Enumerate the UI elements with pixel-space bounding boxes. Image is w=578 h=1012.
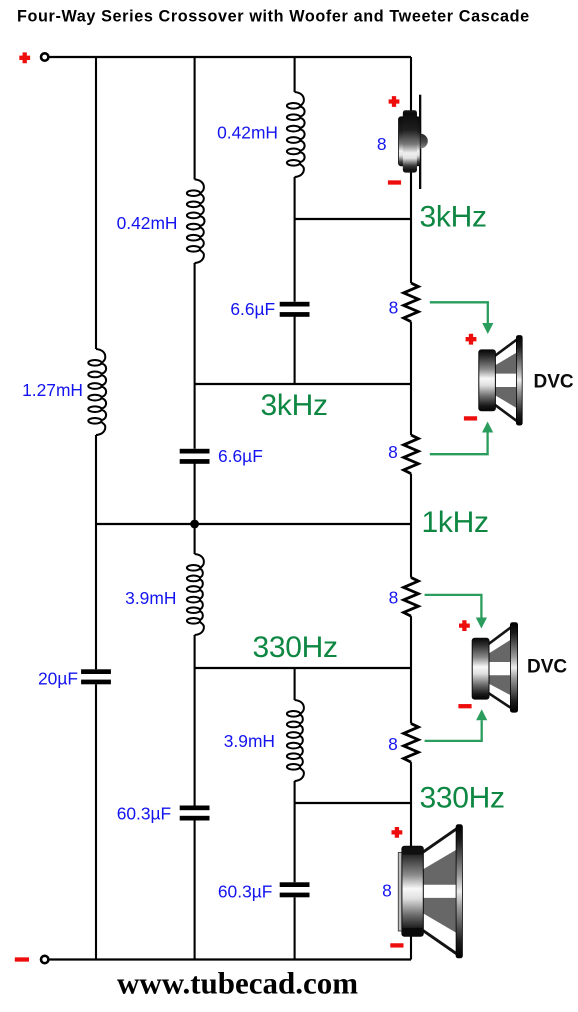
svg-text:6.6µF: 6.6µF xyxy=(230,299,275,319)
capacitor C4 60.3uF xyxy=(180,806,210,811)
wire x2 upper xyxy=(194,57,196,179)
wire bottom rail xyxy=(49,958,411,960)
label - (DVC2) xyxy=(458,704,471,708)
label + (tweeter) xyxy=(389,96,400,107)
wire node line E (330Hz lower) xyxy=(295,802,411,804)
svg-text:60.3µF: 60.3µF xyxy=(218,881,273,901)
resistor R3 8ohm xyxy=(404,578,419,617)
wire x3 upper xyxy=(294,177,296,302)
svg-text:3kHz: 3kHz xyxy=(420,200,487,233)
svg-text:6.6µF: 6.6µF xyxy=(218,446,263,466)
node junction dot (1kHz bus) xyxy=(190,520,199,529)
svg-text:3kHz: 3kHz xyxy=(261,389,328,422)
capacitor C6 60.3uF xyxy=(280,882,310,887)
green arrow R2 to DVC1 - xyxy=(430,433,488,455)
tweeter speaker (8 ohm) xyxy=(419,95,421,189)
input terminal circle (bottom) xyxy=(41,956,48,963)
capacitor C5 20uF xyxy=(81,669,111,674)
svg-text:8: 8 xyxy=(377,134,387,154)
svg-text:1kHz: 1kHz xyxy=(422,506,489,539)
wire left rail upper xyxy=(95,57,97,349)
wire node line C (1kHz) xyxy=(96,523,411,525)
svg-text:DVC: DVC xyxy=(527,657,567,678)
inductor L4 1.27mH xyxy=(96,349,106,435)
svg-text:Four-Way Series Crossover with: Four-Way Series Crossover with Woofer an… xyxy=(17,8,530,26)
wire x3 bottom xyxy=(294,897,296,959)
wire x2 bottom xyxy=(194,821,196,960)
label - (woofer) xyxy=(390,943,403,947)
label + (DVC1) xyxy=(466,334,477,345)
input terminal circle (top) xyxy=(41,53,48,60)
inductor L3 3.9mH xyxy=(195,554,204,635)
resistor R1 8ohm xyxy=(404,283,419,322)
wire right rail xyxy=(410,57,412,112)
wire x3 top xyxy=(294,57,296,92)
green arrow R3 to DVC2 + xyxy=(425,595,482,618)
inductor L5 3.9mH xyxy=(295,700,304,781)
green arrow R4 to DVC2 - xyxy=(425,720,482,741)
label - (DVC1) xyxy=(464,416,477,420)
wire x3 lower1 xyxy=(294,668,296,700)
negative input terminal - xyxy=(15,957,29,961)
svg-text:330Hz: 330Hz xyxy=(253,631,338,664)
green arrow R1 to DVC1 + xyxy=(430,302,488,323)
svg-text:330Hz: 330Hz xyxy=(420,782,505,815)
svg-text:8: 8 xyxy=(388,442,398,462)
wire node line B (3kHz) xyxy=(195,383,411,385)
svg-text:3.9mH: 3.9mH xyxy=(125,588,176,608)
wire x3 lower2 xyxy=(294,781,296,882)
svg-text:60.3µF: 60.3µF xyxy=(117,804,172,824)
svg-text:0.42mH: 0.42mH xyxy=(117,213,178,233)
wire x2 lower xyxy=(194,635,196,806)
wire x2 middle xyxy=(194,263,196,449)
resistor R4 8ohm xyxy=(404,724,419,763)
inductor L1 0.42mH xyxy=(295,92,305,177)
wire x3 mid xyxy=(294,317,296,385)
svg-text:0.42mH: 0.42mH xyxy=(217,122,278,142)
svg-text:DVC: DVC xyxy=(534,372,574,393)
svg-text:3.9mH: 3.9mH xyxy=(224,731,275,751)
positive input terminal + xyxy=(19,52,30,63)
inductor L2 0.42mH xyxy=(195,179,205,263)
capacitor C1 6.6uF xyxy=(280,302,310,307)
wire top rail xyxy=(49,56,411,58)
resistor R2 8ohm xyxy=(404,435,419,474)
svg-text:1.27mH: 1.27mH xyxy=(22,380,83,400)
woofer speaker (8 ohm) xyxy=(398,853,403,932)
svg-text:8: 8 xyxy=(388,734,398,754)
svg-text:8: 8 xyxy=(382,881,392,901)
wire node line A (tweeter bottom) xyxy=(295,218,411,220)
svg-text:8: 8 xyxy=(389,587,399,607)
wire left rail lower xyxy=(95,684,97,959)
label + (DVC2) xyxy=(459,620,470,631)
label + (woofer) xyxy=(392,827,403,838)
label - (tweeter) xyxy=(388,180,401,184)
wire left rail middle xyxy=(95,435,97,669)
speaker DVC1 (dual voice coil) xyxy=(493,338,519,424)
svg-text:www.tubecad.com: www.tubecad.com xyxy=(117,966,358,1001)
wire x2 lower-mid xyxy=(194,464,196,555)
speaker DVC2 (dual voice coil) xyxy=(487,625,514,711)
capacitor C2 6.6uF xyxy=(180,449,210,454)
wire node line D (330Hz) xyxy=(195,667,411,669)
svg-text:8: 8 xyxy=(389,298,399,318)
svg-text:20µF: 20µF xyxy=(38,669,78,689)
